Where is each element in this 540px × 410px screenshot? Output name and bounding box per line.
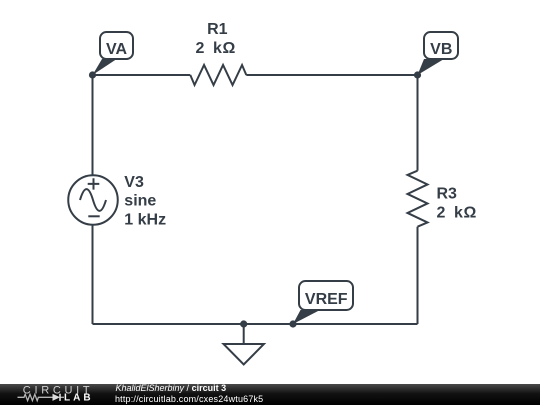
wire VA to R1 bbox=[93, 74, 191, 76]
wire R1 to VB bbox=[246, 74, 417, 76]
wire VB down to R3 bbox=[417, 75, 419, 171]
node dot VREF bbox=[289, 320, 296, 327]
svg-text:1 kHz: 1 kHz bbox=[124, 211, 166, 228]
svg-text:2 kΩ: 2 kΩ bbox=[195, 40, 235, 57]
junction dot ground bbox=[240, 320, 247, 327]
voltage source V3 bbox=[68, 175, 118, 225]
svg-text:R1: R1 bbox=[207, 21, 228, 38]
node dot VA bbox=[89, 71, 96, 78]
ground stem bbox=[243, 324, 245, 344]
resistor R1 bbox=[190, 65, 246, 85]
wire VA down to V3 bbox=[92, 75, 94, 176]
svg-text:http://circuitlab.com/cxes24wt: http://circuitlab.com/cxes24wtu67k5 bbox=[115, 394, 263, 404]
wire bottom rail bbox=[93, 323, 418, 325]
node flag VREF bbox=[293, 281, 353, 324]
svg-text:VB: VB bbox=[430, 41, 452, 58]
logo diode bbox=[53, 394, 61, 401]
svg-text:2 kΩ: 2 kΩ bbox=[437, 204, 477, 221]
ground triangle bbox=[224, 344, 264, 365]
node flag VA bbox=[93, 32, 134, 75]
resistor R3 bbox=[408, 171, 428, 227]
svg-text:R3: R3 bbox=[437, 186, 458, 203]
svg-text:LAB: LAB bbox=[64, 393, 94, 404]
svg-text:KhalidElSherbiny / circuit 3: KhalidElSherbiny / circuit 3 bbox=[116, 383, 227, 393]
svg-text:V3: V3 bbox=[124, 174, 144, 191]
wire V3 to bottom rail bbox=[92, 225, 94, 324]
svg-text:sine: sine bbox=[124, 193, 156, 210]
logo schematic squiggle bbox=[18, 394, 65, 400]
node flag VB bbox=[418, 32, 459, 75]
svg-text:VA: VA bbox=[106, 41, 127, 58]
wire R3 to bottom rail bbox=[417, 227, 419, 324]
svg-text:VREF: VREF bbox=[305, 291, 348, 308]
node dot VB bbox=[414, 71, 421, 78]
